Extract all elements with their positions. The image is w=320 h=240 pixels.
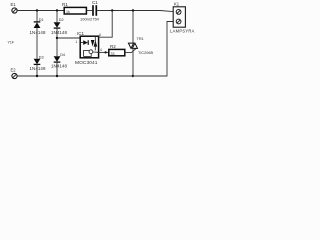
node junction top rail at triac riser [132,9,134,11]
node junction top rail at D2 [56,9,58,11]
op-amp U1 optocoupler IC1 MOC3041 box [75,31,99,66]
svg-text:4: 4 [100,48,102,52]
svg-text:D2: D2 [59,18,64,22]
svg-text:6: 6 [99,33,101,37]
svg-text:MOC3041: MOC3041 [75,60,98,66]
wire D3 column to bottom rail [36,64,38,76]
node junction top rail at D1 [36,9,38,11]
svg-text:1N4148: 1N4148 [30,66,46,71]
svg-text:LAMPSYRA: LAMPSYRA [170,28,195,33]
wire D1 column lower to bottom rail [36,28,38,59]
svg-text:C1: C1 [92,0,98,5]
wire R1 to C1 [86,10,92,12]
connector K1 [170,2,195,34]
svg-text:1N4148: 1N4148 [51,30,67,35]
svg-text:K1: K1 [174,2,180,7]
wire D2 column upper [56,11,58,23]
wire D4 column to bottom rail [56,62,58,76]
svg-text:Y1F: Y1F [8,41,15,45]
node junction D2 column to IC pin1 [56,37,58,39]
svg-text:R2: R2 [110,44,116,49]
node junction bottom rail at D4 [56,75,58,77]
wire bottom rail [17,22,173,77]
terminal E1 [11,2,18,13]
node junction triac bottom rail [132,75,134,77]
svg-text:R1: R1 [62,2,68,7]
svg-text:TR1: TR1 [137,37,144,41]
wire D1 column upper [36,11,38,22]
svg-text:1: 1 [76,40,78,44]
resistor R1 [62,2,86,14]
wire to IC1 pin 1 [57,37,80,39]
diode D1 [30,18,46,35]
svg-text:E2: E2 [11,68,17,73]
zero-crossing block inside IC1 [84,50,99,57]
svg-text:33: 33 [111,52,115,56]
capacitor C1 [80,0,100,21]
node junction bottom rail at D3 [36,75,38,77]
svg-text:1N4148: 1N4148 [51,64,67,69]
wire top rail [17,10,64,12]
wire triac riser from top rail [132,11,134,44]
node junction top rail at IC pin6 riser [111,9,113,11]
diode D4 [51,53,67,69]
wire IC1 pin4 to R2 [99,48,109,54]
svg-text:D4: D4 [60,53,65,57]
svg-text:1N4148: 1N4148 [30,30,46,35]
LED inside IC1 [81,40,88,45]
svg-text:1k: 1k [66,10,70,14]
diode D3 [30,56,46,72]
svg-text:E1: E1 [11,2,17,7]
svg-text:100n/275V: 100n/275V [80,17,100,22]
diode D2 [51,18,67,35]
wire C1 to connector K1 pin1 [97,11,173,12]
terminal E2 [11,68,18,79]
phototriac inside IC1 [91,37,97,51]
svg-text:TIC206B: TIC206B [138,51,153,55]
wire IC1 pin6 to top rail [99,11,113,38]
svg-text:IC1: IC1 [77,31,85,36]
wire triac to bottom rail [132,48,134,76]
resistor R2 [109,44,125,56]
transistor TR1 triac TIC206B [128,37,153,55]
wire D2 column middle [56,28,58,56]
wire R2 to triac gate [125,48,136,52]
